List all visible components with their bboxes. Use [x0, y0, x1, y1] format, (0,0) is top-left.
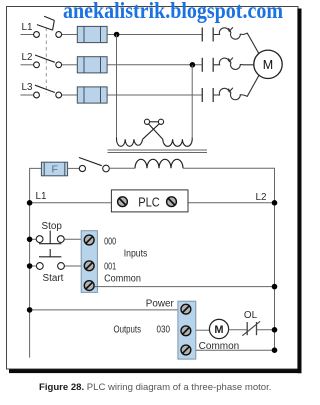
svg-text:001: 001: [104, 262, 116, 273]
input common wire: [95, 286, 275, 288]
wire L2 fuse to contact: [107, 64, 202, 66]
PLC terminal screw right: [167, 197, 177, 207]
wire OL to rail: [257, 329, 275, 331]
wire stop row left: [30, 238, 37, 240]
svg-text:PLC: PLC: [138, 195, 160, 209]
svg-text:Common: Common: [104, 274, 141, 285]
motor starter coil M: [209, 319, 228, 338]
wire L1 stub: [21, 34, 34, 36]
disconnect switch pole 3: [34, 85, 62, 98]
svg-text:M: M: [263, 58, 273, 72]
wire L2 stub: [21, 64, 34, 66]
fuse F: [41, 162, 67, 176]
wire switch to secondary: [109, 167, 135, 169]
input screw 001: [84, 261, 94, 271]
junction node OL rail: [272, 327, 278, 333]
start pushbutton NO: [36, 249, 64, 269]
transformer secondary winding: [135, 159, 183, 168]
junction node after fuse 2: [190, 62, 196, 68]
contactor contact M row 2: [202, 58, 213, 72]
overload heater row 2: [213, 58, 254, 70]
fuse row 3: [77, 87, 107, 103]
junction node start: [27, 263, 33, 269]
primary tap cross wires: [143, 122, 162, 139]
svg-text:M: M: [214, 324, 223, 336]
svg-text:anekalistrik.blogspot.com: anekalistrik.blogspot.com: [63, 0, 283, 23]
svg-text:000: 000: [104, 237, 116, 248]
junction node power: [27, 307, 33, 313]
svg-text:L2: L2: [22, 52, 33, 63]
wire secondary to right rail: [183, 168, 275, 350]
svg-text:F: F: [52, 165, 58, 176]
junction node L1: [27, 200, 33, 206]
input terminal strip: [81, 231, 97, 293]
input screw 000: [84, 235, 94, 245]
wire start row right: [64, 265, 84, 267]
wire L1 rail to PLC: [30, 202, 118, 204]
transformer core: [108, 149, 208, 151]
wire L3 stub: [21, 94, 34, 96]
overload heater row 1: [213, 27, 259, 54]
transformer primary right winding: [163, 138, 192, 147]
power line wire: [30, 309, 181, 311]
junction node L2: [272, 200, 278, 206]
OL contact NC: [242, 321, 260, 335]
overload heater row 3: [213, 75, 259, 100]
wire L3 fuse to contact: [107, 94, 202, 96]
svg-text:Common: Common: [199, 341, 240, 352]
output screw 030: [181, 326, 191, 336]
junction node input common: [272, 284, 278, 290]
PLC box: [111, 190, 188, 212]
disconnect switch pole 1: [34, 16, 62, 37]
svg-text:Outputs: Outputs: [114, 324, 142, 335]
svg-text:Stop: Stop: [42, 221, 63, 232]
stop pushbutton NC: [36, 231, 64, 244]
input screw common: [84, 281, 94, 291]
svg-text:030: 030: [157, 324, 171, 335]
junction node after fuse 1: [114, 32, 120, 38]
junction node output common: [272, 347, 278, 353]
svg-text:L1: L1: [22, 22, 33, 33]
fuse row 1: [77, 26, 107, 42]
transformer primary left winding: [116, 35, 118, 139]
wire PLC to L2 rail: [176, 202, 275, 204]
svg-text:L2: L2: [256, 192, 267, 203]
control switch: [79, 158, 109, 172]
contactor contact M row 3: [202, 88, 213, 102]
wire F to switch: [68, 167, 80, 169]
wire 030 to starter coil: [196, 329, 210, 331]
PLC terminal screw left: [118, 197, 128, 207]
svg-text:L3: L3: [22, 82, 33, 93]
svg-text:Inputs: Inputs: [124, 249, 148, 260]
svg-text:OL: OL: [244, 310, 258, 321]
primary tap terminal circles: [144, 119, 149, 124]
output terminal strip: [178, 301, 196, 359]
control fuse F wire from rail: [30, 168, 42, 357]
wire coil to OL: [229, 329, 248, 331]
disconnect switch pole 2: [34, 55, 62, 68]
output common wire: [196, 349, 275, 351]
svg-text:Figure 28. PLC wiring diagram: Figure 28. PLC wiring diagram of a three…: [39, 382, 271, 393]
svg-text:Start: Start: [43, 273, 64, 284]
contactor contact M row 1: [202, 28, 213, 42]
junction node stop: [27, 237, 33, 243]
motor M: [254, 50, 282, 78]
output screw power: [181, 304, 191, 314]
fuse row 2: [77, 57, 107, 73]
output screw common: [181, 345, 191, 355]
mechanical link dashed: [45, 28, 47, 94]
wire L1 fuse to contact: [107, 34, 202, 36]
wire start row left: [30, 265, 37, 267]
svg-text:Power: Power: [146, 298, 175, 309]
wire stop row right: [64, 238, 84, 240]
svg-text:L1: L1: [36, 191, 47, 202]
